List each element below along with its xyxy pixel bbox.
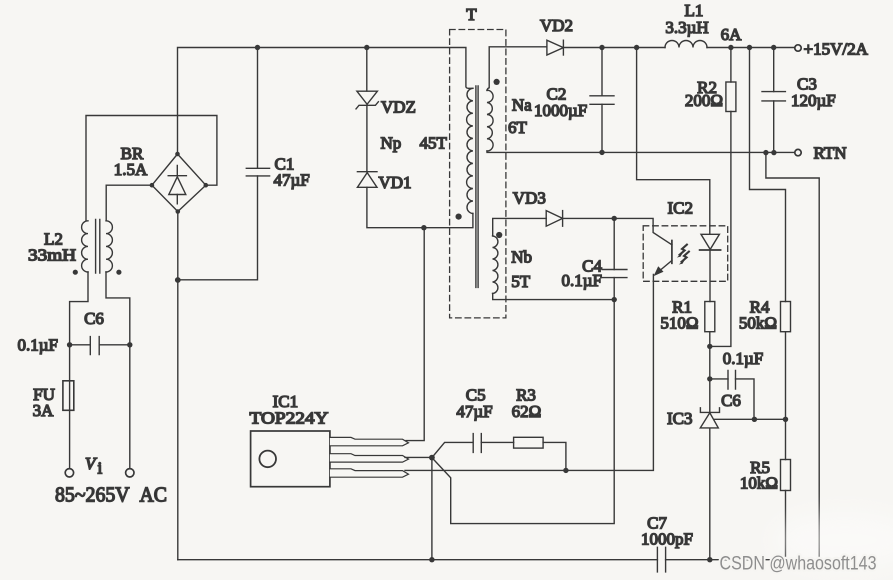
svg-text:C6: C6 bbox=[721, 391, 741, 410]
node: junction dot C1 bottom to bridge minus bbox=[175, 277, 181, 283]
wire: R5 bottom to secondary ground rail bbox=[785, 491, 787, 560]
svg-text:VDZ: VDZ bbox=[381, 98, 416, 117]
AC input terminal right bbox=[126, 469, 134, 477]
wire: L2 left winding bottom to fuse and AC terminal bbox=[70, 272, 88, 468]
fuse FU body bbox=[63, 381, 74, 411]
wire: bottom rail secondary side bbox=[666, 559, 820, 561]
wire: RTN extension jog down right side bbox=[766, 153, 819, 560]
wire: C5 to R3 bbox=[481, 441, 513, 443]
inductor L2 right winding bbox=[106, 221, 112, 272]
optocoupler emitter diagonal bbox=[655, 261, 672, 275]
capacitor C6 (feedback) plates bbox=[728, 371, 736, 390]
svg-text:1000pF: 1000pF bbox=[641, 530, 693, 549]
svg-text:45T: 45T bbox=[420, 134, 448, 153]
diode VD3 bbox=[546, 211, 562, 227]
node: junction dot control pin bbox=[429, 455, 435, 461]
inductor L2 core lines bbox=[96, 220, 100, 274]
wire: VDZ to VD1 bbox=[366, 105, 368, 172]
svg-text:0.1µF: 0.1µF bbox=[723, 349, 764, 368]
node: Na phasing dot bbox=[494, 79, 500, 85]
node: junction dot C3 bottom bbox=[771, 150, 776, 155]
optocoupler phototransistor base bar bbox=[671, 241, 673, 264]
resistor R5 body bbox=[781, 460, 791, 491]
node: junction dot C6 left lead bbox=[707, 376, 712, 381]
wire: LED feed from +15V rail down and over to IC2 LED bbox=[637, 48, 710, 235]
bridge BR inner diode bbox=[168, 166, 186, 204]
capacitor C3 leads bbox=[773, 48, 775, 153]
svg-text:47µF: 47µF bbox=[456, 402, 492, 421]
node: junction dot optocoupler LED feed bbox=[634, 45, 639, 50]
node: junction dot C6 left bbox=[67, 342, 72, 347]
svg-text:3A: 3A bbox=[33, 401, 55, 420]
node: junction dot C2 top bbox=[599, 45, 604, 50]
IC1 mounting hole bbox=[259, 451, 276, 468]
resistor R4 body bbox=[781, 302, 791, 332]
node: junction dot R3 on source line bbox=[563, 468, 568, 473]
wire: +15V rail L1 to output terminal bbox=[707, 47, 795, 49]
inductor L2 left winding bbox=[82, 221, 88, 272]
wire: Nb bottom return bbox=[493, 293, 615, 299]
white smudge under watermark bbox=[773, 512, 893, 568]
node: junction dot C2 bottom bbox=[599, 150, 604, 155]
IC3 shunt regulator TL431 symbol bbox=[700, 408, 719, 413]
svg-text:47µF: 47µF bbox=[274, 171, 310, 190]
node: Nb phasing dot bbox=[496, 232, 502, 238]
bridge rectifier BR diamond bbox=[152, 154, 206, 212]
node: junction dot C6 right bbox=[127, 342, 132, 347]
node: junction dot C6 right at ref row bbox=[752, 417, 757, 422]
node: junction dot control ground on bottom rail bbox=[429, 557, 434, 562]
svg-text:VD3: VD3 bbox=[513, 188, 546, 207]
IC1 TOP224Y package body bbox=[251, 431, 330, 487]
transformer core lines bbox=[476, 86, 478, 287]
node: junction dot R1 bottom / R2 line bbox=[707, 344, 712, 349]
IC1 pin 2 control tab bbox=[330, 454, 409, 462]
capacitor C2 plates bbox=[590, 96, 614, 105]
resistor R1 body bbox=[705, 302, 715, 332]
output terminal +15V bbox=[795, 45, 801, 51]
wire: R4 feed from +15V rail down jog to R4 top bbox=[750, 48, 786, 302]
diode VD2 bbox=[547, 40, 564, 55]
wire: VD3 cathode to optocoupler collector bbox=[563, 218, 672, 244]
svg-text:200Ω: 200Ω bbox=[685, 91, 723, 110]
wire: L2 right winding bottom to AC terminal bbox=[106, 272, 130, 468]
wire: RTN rail from Na bottom to RTN terminal bbox=[487, 151, 795, 152]
svg-text:Nb: Nb bbox=[511, 247, 532, 266]
RTN terminal bbox=[795, 149, 801, 155]
svg-text:1.5A: 1.5A bbox=[114, 160, 148, 179]
svg-text:VD1: VD1 bbox=[379, 173, 412, 192]
wire: Na top to VD2 anode bbox=[487, 47, 546, 91]
wire: IC3 anode down to secondary ground rail bbox=[709, 428, 711, 560]
zener VDZ bbox=[357, 91, 378, 104]
svg-text:VD2: VD2 bbox=[540, 16, 573, 35]
node: bridge bottom vertex dot bbox=[176, 209, 181, 214]
svg-text:T: T bbox=[466, 5, 477, 24]
optocoupler LED triangle bbox=[701, 234, 719, 249]
capacitor C6 (input) plates bbox=[90, 337, 99, 355]
wire: R2 bottom down to R1 bottom junction bbox=[710, 112, 731, 347]
node: L2 phasing dot left bbox=[73, 270, 78, 275]
svg-text:1000µF: 1000µF bbox=[534, 101, 587, 120]
node: junction dot C1 top on DC+ rail bbox=[255, 45, 260, 50]
resistor R3 body bbox=[514, 437, 544, 448]
wire: control loop from Nb return down and around to IC1 control pin bbox=[432, 300, 614, 524]
wire: +15V rail VD2 cathode to L1 bbox=[563, 47, 665, 49]
resistor R2 body bbox=[726, 82, 736, 112]
capacitor C1 leads bbox=[178, 48, 258, 280]
wire: IC1 control pin to primary ground rail bbox=[431, 458, 433, 560]
IC1 pin 3 source tab bbox=[330, 469, 409, 477]
svg-text:0.1µF: 0.1µF bbox=[18, 336, 59, 355]
diode VD1 bbox=[357, 171, 377, 173]
capacitor C4 plates bbox=[602, 270, 627, 278]
wire: bridge AC right vertex to L2 left winding top bbox=[86, 116, 217, 221]
capacitor C2 leads bbox=[601, 48, 603, 153]
transformer secondary winding Na bbox=[487, 90, 493, 151]
node: junction dot drain on primary bottom wire bbox=[421, 225, 426, 230]
svg-text:i: i bbox=[98, 459, 103, 478]
svg-text:33mH: 33mH bbox=[28, 246, 76, 265]
wire: DC+ top rail from bridge top to transformer primary top bbox=[178, 48, 473, 155]
node: junction dot RTN extension bbox=[763, 150, 768, 155]
svg-text:120µF: 120µF bbox=[791, 91, 836, 110]
node: bridge top vertex dot bbox=[175, 152, 180, 157]
svg-text:Na: Na bbox=[512, 95, 532, 114]
node: junction dot R2 top bbox=[728, 45, 733, 50]
wire: R3 to source line bbox=[543, 442, 566, 470]
wire: IC1 source pin line to optocoupler emitter bbox=[405, 275, 653, 471]
svg-text:85~265V AC: 85~265V AC bbox=[55, 483, 167, 507]
wire: R4 bottom to R5 top bbox=[785, 332, 787, 460]
svg-text:TOP224Y: TOP224Y bbox=[250, 409, 329, 428]
node: junction dot C4 top / control tap bbox=[612, 216, 617, 221]
wire: R1 bottom to IC3 cathode bbox=[709, 332, 711, 412]
svg-text:3.3µH: 3.3µH bbox=[665, 18, 708, 37]
svg-text:IC3: IC3 bbox=[667, 409, 693, 428]
svg-text:510Ω: 510Ω bbox=[660, 313, 698, 332]
wire: LED cathode to R1 top bbox=[709, 250, 711, 302]
svg-text:62Ω: 62Ω bbox=[512, 402, 542, 421]
svg-text:0.1µF: 0.1µF bbox=[562, 271, 603, 290]
node: bridge left vertex dot bbox=[150, 183, 155, 188]
wire: IC1 drain pin up to primary bottom bbox=[406, 228, 424, 441]
wire: control pin to C5 bbox=[432, 442, 473, 457]
node: junction dot VDZ branch on DC+ rail bbox=[364, 45, 369, 50]
capacitor C7 plates bbox=[657, 547, 665, 572]
svg-text:6A: 6A bbox=[721, 25, 743, 44]
node: bridge right vertex dot bbox=[204, 183, 209, 188]
svg-text:CSDN @whaosoft143: CSDN @whaosoft143 bbox=[720, 554, 877, 575]
capacitor C6 (input) leads bbox=[70, 344, 130, 346]
IC1 pin 1 drain tab bbox=[330, 437, 409, 445]
inductor L1 bbox=[665, 41, 707, 48]
node: junction dot R5 bottom at rail bbox=[783, 557, 788, 562]
optocoupler light arrows bbox=[680, 245, 687, 255]
capacitor C1 plates bbox=[246, 168, 269, 176]
wire: IC3 ref row to divider junction bbox=[715, 418, 786, 420]
capacitor C5 plates bbox=[473, 434, 481, 453]
wire: Nb top to VD3 anode bbox=[493, 218, 547, 236]
wire: control pin lead bbox=[405, 456, 432, 458]
svg-text:10kΩ: 10kΩ bbox=[740, 474, 778, 493]
node: junction dot R4 feed top bbox=[747, 45, 752, 50]
optocoupler LED cathode bar bbox=[700, 249, 721, 251]
transformer bias winding Nb bbox=[493, 236, 498, 294]
IC2 optocoupler dashed box bbox=[643, 226, 728, 281]
node: junction dot R4/R5 divider bbox=[783, 417, 788, 422]
transformer primary winding Np bbox=[467, 88, 473, 213]
node: primary phasing dot bbox=[456, 214, 462, 220]
wire: bottom rail primary side bbox=[178, 559, 658, 561]
node: L2 phasing dot right bbox=[116, 270, 121, 275]
wire: bridge AC left vertex to L2 right winding top bbox=[106, 185, 152, 221]
transformer T dashed box bbox=[450, 30, 506, 318]
svg-text:RTN: RTN bbox=[814, 144, 847, 163]
wire: bridge minus vertical down to bottom rail bbox=[177, 212, 179, 560]
capacitor C3 plates bbox=[762, 92, 785, 101]
svg-text:+15V/2A: +15V/2A bbox=[804, 40, 869, 59]
svg-text:5T: 5T bbox=[511, 272, 531, 291]
svg-text:C6: C6 bbox=[84, 309, 104, 328]
capacitor C6 (feedback) leads bbox=[710, 379, 754, 419]
node: junction dot IC3 anode at rail bbox=[707, 557, 712, 562]
node: junction dot C3 top bbox=[771, 45, 776, 50]
node: junction dot C4 bottom on Nb return bbox=[612, 297, 617, 302]
svg-text:Np: Np bbox=[381, 134, 402, 153]
svg-text:6T: 6T bbox=[508, 118, 528, 137]
zener VDZ branch top lead bbox=[366, 48, 368, 92]
optocoupler emitter arrowhead bbox=[654, 266, 664, 276]
wire: VD1 bottom to transformer primary bottom bbox=[367, 187, 473, 227]
AC input terminal left bbox=[65, 469, 73, 477]
capacitor C4 leads bbox=[613, 218, 615, 299]
resistor R2 top lead bbox=[730, 48, 732, 83]
svg-text:IC2: IC2 bbox=[668, 199, 694, 218]
svg-text:50kΩ: 50kΩ bbox=[739, 313, 777, 332]
